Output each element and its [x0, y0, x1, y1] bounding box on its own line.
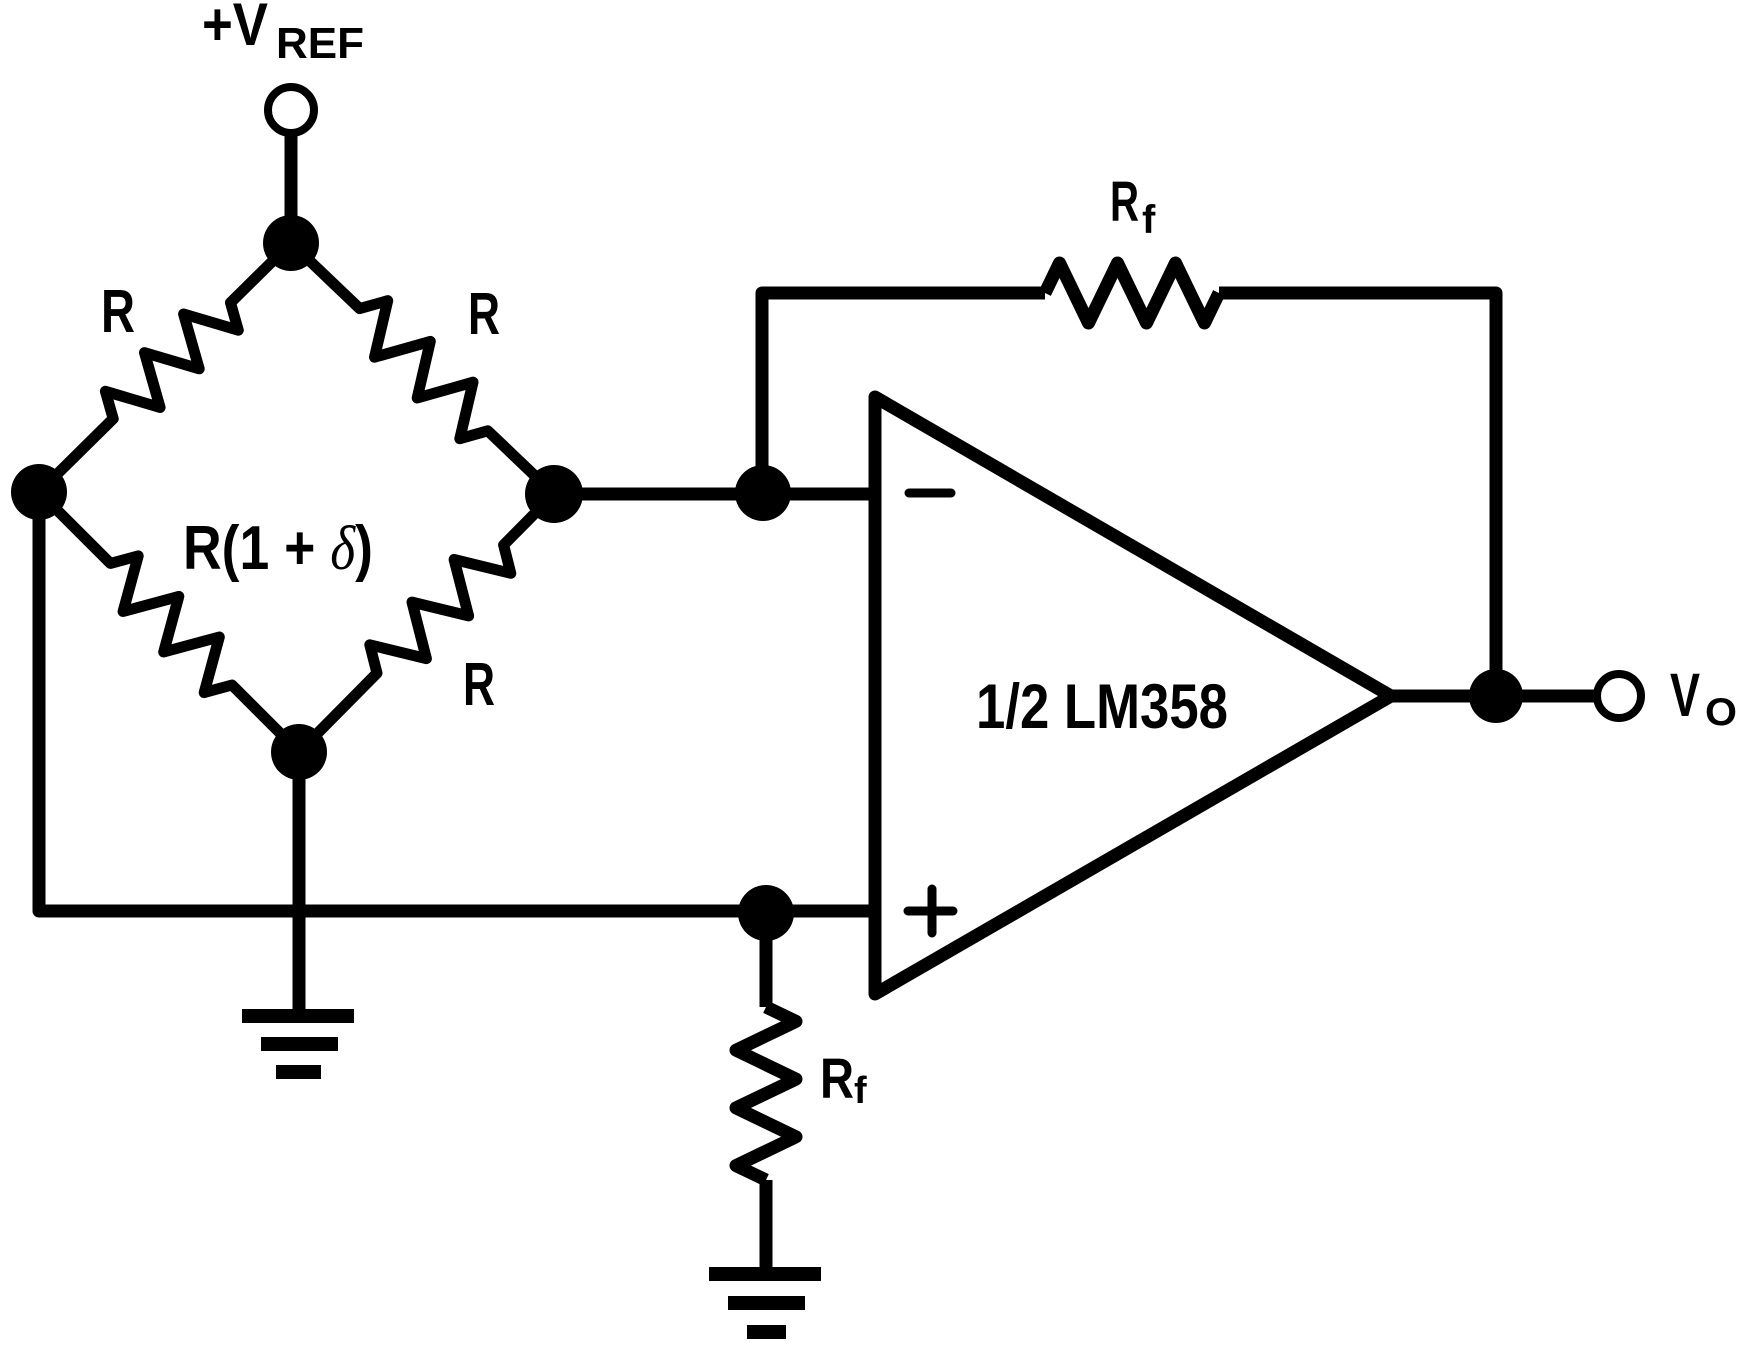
svg-text:REF: REF: [276, 19, 364, 68]
svg-text:R: R: [101, 277, 135, 345]
svg-text:R: R: [1110, 170, 1139, 234]
label Rf (feedback): [1110, 170, 1156, 242]
wire output: [1391, 690, 1596, 703]
svg-text:R: R: [820, 1047, 854, 1111]
svg-text:+V: +V: [202, 0, 268, 58]
label +VREF: [202, 0, 364, 68]
node: bridge bottom: [271, 724, 327, 780]
svg-text:R(1 + δ): R(1 + δ): [183, 514, 373, 583]
ground (Rf): [709, 1274, 821, 1332]
wire right node to - input: [554, 488, 875, 501]
node: bridge left: [11, 464, 67, 520]
node: bridge right: [525, 465, 583, 523]
ground (bridge): [242, 1016, 354, 1072]
plus input sign: [908, 889, 953, 933]
wire feedback left vertical: [762, 293, 1045, 494]
resistor R (bottom-right): [299, 494, 554, 752]
wire left node drop and bottom horizontal to + input: [39, 492, 875, 911]
node: bridge top: [263, 215, 319, 271]
svg-text:f: f: [1142, 198, 1156, 242]
resistor R (top-left): [39, 243, 291, 492]
label Vo: [1670, 661, 1737, 734]
terminal +VREF (open circle): [268, 87, 314, 133]
svg-text:V: V: [1670, 661, 1700, 729]
svg-text:f: f: [854, 1070, 867, 1112]
op-amp U1 1/2 LM358: [875, 397, 1391, 994]
wire VREF stem: [285, 132, 298, 243]
resistor R(1+delta) (bottom-left): [39, 492, 299, 752]
wire feedback right vertical: [1219, 293, 1496, 696]
label Rf (to ground): [820, 1047, 867, 1112]
resistor R (top-right): [291, 243, 554, 494]
svg-text:R: R: [468, 281, 500, 347]
wire bridge bottom node to ground: [293, 752, 306, 1016]
wire Rf to ground: [760, 1180, 773, 1274]
node: inverting input junction: [735, 465, 791, 521]
svg-text:R: R: [463, 650, 495, 718]
minus input sign: [909, 489, 951, 498]
svg-text:O: O: [1705, 691, 1737, 734]
node: non-inverting input junction: [738, 885, 794, 941]
resistor Rf (feedback, horizontal): [1045, 263, 1219, 323]
wire + input drop to Rf: [760, 913, 773, 1007]
svg-text:1/2 LM358: 1/2 LM358: [976, 672, 1228, 742]
node: output junction: [1469, 669, 1523, 723]
terminal Vo (open circle): [1597, 674, 1641, 718]
resistor Rf (to ground, vertical): [736, 1007, 796, 1180]
